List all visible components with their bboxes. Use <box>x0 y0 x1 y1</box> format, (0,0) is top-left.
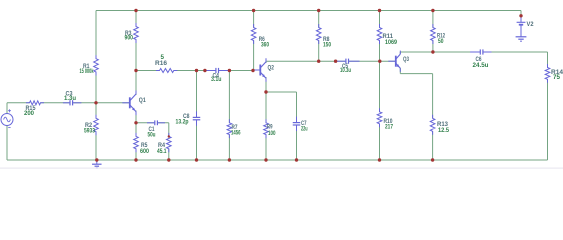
svg-text:12.5: 12.5 <box>438 128 450 134</box>
svg-text:1.3u: 1.3u <box>64 96 76 102</box>
svg-text:600: 600 <box>140 149 150 155</box>
svg-text:45.1: 45.1 <box>157 149 167 155</box>
svg-text:13.2p: 13.2p <box>176 119 189 125</box>
svg-text:900: 900 <box>125 36 134 42</box>
svg-text:1069: 1069 <box>385 40 398 46</box>
svg-text:R16: R16 <box>155 61 168 67</box>
svg-text:200: 200 <box>24 111 35 117</box>
svg-text:100: 100 <box>268 131 276 137</box>
svg-text:Q2: Q2 <box>268 65 275 71</box>
svg-text:50u: 50u <box>148 132 156 138</box>
svg-text:150: 150 <box>323 42 332 48</box>
svg-text:V2: V2 <box>527 22 535 28</box>
svg-text:5933: 5933 <box>84 129 96 135</box>
svg-text:75: 75 <box>553 75 561 81</box>
svg-text:R9: R9 <box>267 125 273 131</box>
svg-text:360: 360 <box>261 42 270 48</box>
svg-text:50: 50 <box>438 39 444 45</box>
svg-text:R11: R11 <box>383 34 394 40</box>
svg-text:15 000k: 15 000k <box>80 69 94 75</box>
svg-text:217: 217 <box>385 124 394 130</box>
svg-text:Q1: Q1 <box>139 98 147 104</box>
svg-text:22u: 22u <box>301 126 308 132</box>
svg-text:1456: 1456 <box>231 131 241 137</box>
svg-text:3.1u: 3.1u <box>211 77 222 83</box>
svg-text:24.5u: 24.5u <box>473 63 489 69</box>
svg-text:10.3u: 10.3u <box>340 68 351 74</box>
svg-text:Q3: Q3 <box>403 57 409 63</box>
